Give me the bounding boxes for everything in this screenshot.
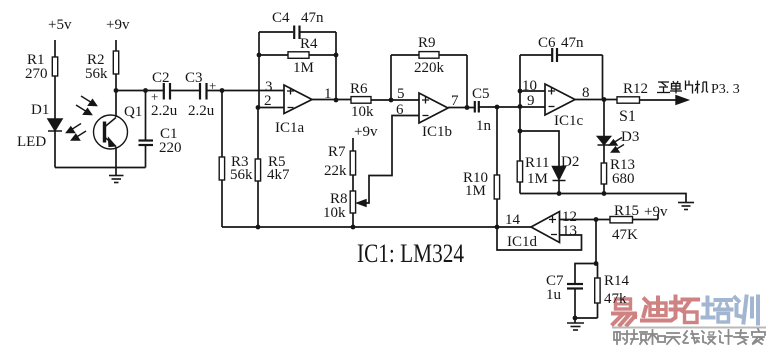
svg-text:2.2u: 2.2u <box>188 103 215 119</box>
svg-text:47n: 47n <box>561 35 584 51</box>
svg-text:220: 220 <box>159 140 182 156</box>
svg-text:56k: 56k <box>230 167 253 183</box>
svg-text:13: 13 <box>562 223 577 239</box>
svg-text:R7: R7 <box>328 144 346 160</box>
svg-text:47K: 47K <box>612 227 638 243</box>
svg-text:C2: C2 <box>152 70 170 86</box>
svg-text:+9v: +9v <box>354 124 378 140</box>
svg-text:1M: 1M <box>527 171 548 187</box>
svg-text:6: 6 <box>396 102 404 118</box>
svg-text:1: 1 <box>324 86 332 102</box>
svg-text:IC1c: IC1c <box>554 113 584 129</box>
svg-text:R4: R4 <box>300 36 318 52</box>
svg-text:IC1b: IC1b <box>422 124 452 140</box>
svg-text:D2: D2 <box>561 154 579 170</box>
svg-text:C6: C6 <box>538 35 556 51</box>
svg-text:56k: 56k <box>85 66 108 82</box>
svg-text:R11: R11 <box>525 155 549 171</box>
svg-text:Q1: Q1 <box>124 104 142 120</box>
svg-text:R9: R9 <box>418 35 436 51</box>
svg-text:8: 8 <box>582 85 590 101</box>
svg-text:10k: 10k <box>351 104 374 120</box>
svg-text:2.2u: 2.2u <box>151 103 178 119</box>
svg-text:1M: 1M <box>465 183 486 199</box>
svg-text:22k: 22k <box>324 163 347 179</box>
svg-text:+5v: +5v <box>48 17 72 33</box>
svg-text:R6: R6 <box>350 81 368 97</box>
svg-text:1M: 1M <box>293 60 314 76</box>
svg-text:5: 5 <box>397 86 405 102</box>
svg-text:14: 14 <box>505 212 521 228</box>
svg-text:220k: 220k <box>414 60 445 76</box>
svg-text:10: 10 <box>522 78 537 94</box>
svg-text:47n: 47n <box>301 10 324 26</box>
svg-text:C5: C5 <box>472 86 490 102</box>
svg-text:P3. 3: P3. 3 <box>711 82 740 97</box>
svg-text:C4: C4 <box>272 10 290 26</box>
svg-text:R12: R12 <box>623 81 648 97</box>
svg-text:R15: R15 <box>614 203 639 219</box>
svg-text:S1: S1 <box>619 108 636 125</box>
svg-text:LED: LED <box>17 134 46 150</box>
svg-text:1n: 1n <box>476 118 492 134</box>
svg-text:1u: 1u <box>546 287 562 303</box>
svg-text:+9v: +9v <box>106 17 130 33</box>
svg-text:2: 2 <box>264 93 272 109</box>
svg-text:10k: 10k <box>323 205 346 221</box>
svg-text:+: + <box>151 89 158 104</box>
svg-text:+: + <box>209 78 216 93</box>
svg-text:IC1: LM324: IC1: LM324 <box>357 239 464 268</box>
svg-text:47k: 47k <box>604 291 627 307</box>
svg-text:IC1d: IC1d <box>507 234 538 250</box>
svg-text:+9v: +9v <box>644 204 668 220</box>
svg-text:270: 270 <box>25 66 48 82</box>
svg-text:R14: R14 <box>604 273 630 289</box>
svg-text:4k7: 4k7 <box>267 167 290 183</box>
svg-text:9: 9 <box>527 93 535 109</box>
svg-text:7: 7 <box>451 93 459 109</box>
svg-text:D3: D3 <box>621 129 639 145</box>
svg-text:D1: D1 <box>31 102 49 118</box>
svg-text:C3: C3 <box>185 70 203 86</box>
svg-text:IC1a: IC1a <box>275 120 305 136</box>
svg-text:680: 680 <box>612 171 635 187</box>
